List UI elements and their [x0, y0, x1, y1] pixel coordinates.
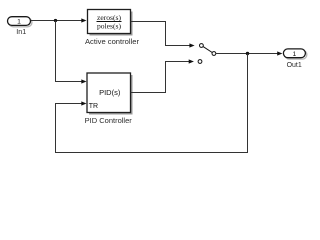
- svg-text:PID Controller: PID Controller: [85, 116, 133, 125]
- svg-text:1: 1: [293, 51, 297, 58]
- block U1: Active controller (zeros/poles transfer fcn): [88, 10, 133, 36]
- svg-text:PID(s): PID(s): [99, 88, 121, 97]
- node: junction before Out1: [246, 52, 249, 55]
- wire: PID output to switch bottom input: [131, 59, 194, 92]
- svg-text:TR: TR: [89, 103, 98, 110]
- svg-text:In1: In1: [16, 27, 26, 36]
- input port In1: [8, 17, 32, 27]
- wire: Active controller output to switch top input: [131, 22, 195, 48]
- svg-text:poles(s): poles(s): [97, 22, 122, 31]
- wire: feedback loop from junction to PID TR input: [56, 54, 248, 153]
- node: junction on input wire: [54, 19, 57, 22]
- wire: switch output to Out1: [216, 51, 283, 55]
- wire: junction down to PID input 1: [56, 21, 87, 84]
- svg-text:Out1: Out1: [287, 62, 302, 69]
- switch SW1: manual switch contacts and arm: [198, 44, 216, 64]
- block: PID Controller: [87, 73, 133, 115]
- svg-text:Active controller: Active controller: [85, 37, 139, 46]
- svg-text:1: 1: [17, 19, 21, 26]
- output port Out1: [283, 49, 306, 59]
- wire: In1 to Active controller input: [31, 18, 87, 22]
